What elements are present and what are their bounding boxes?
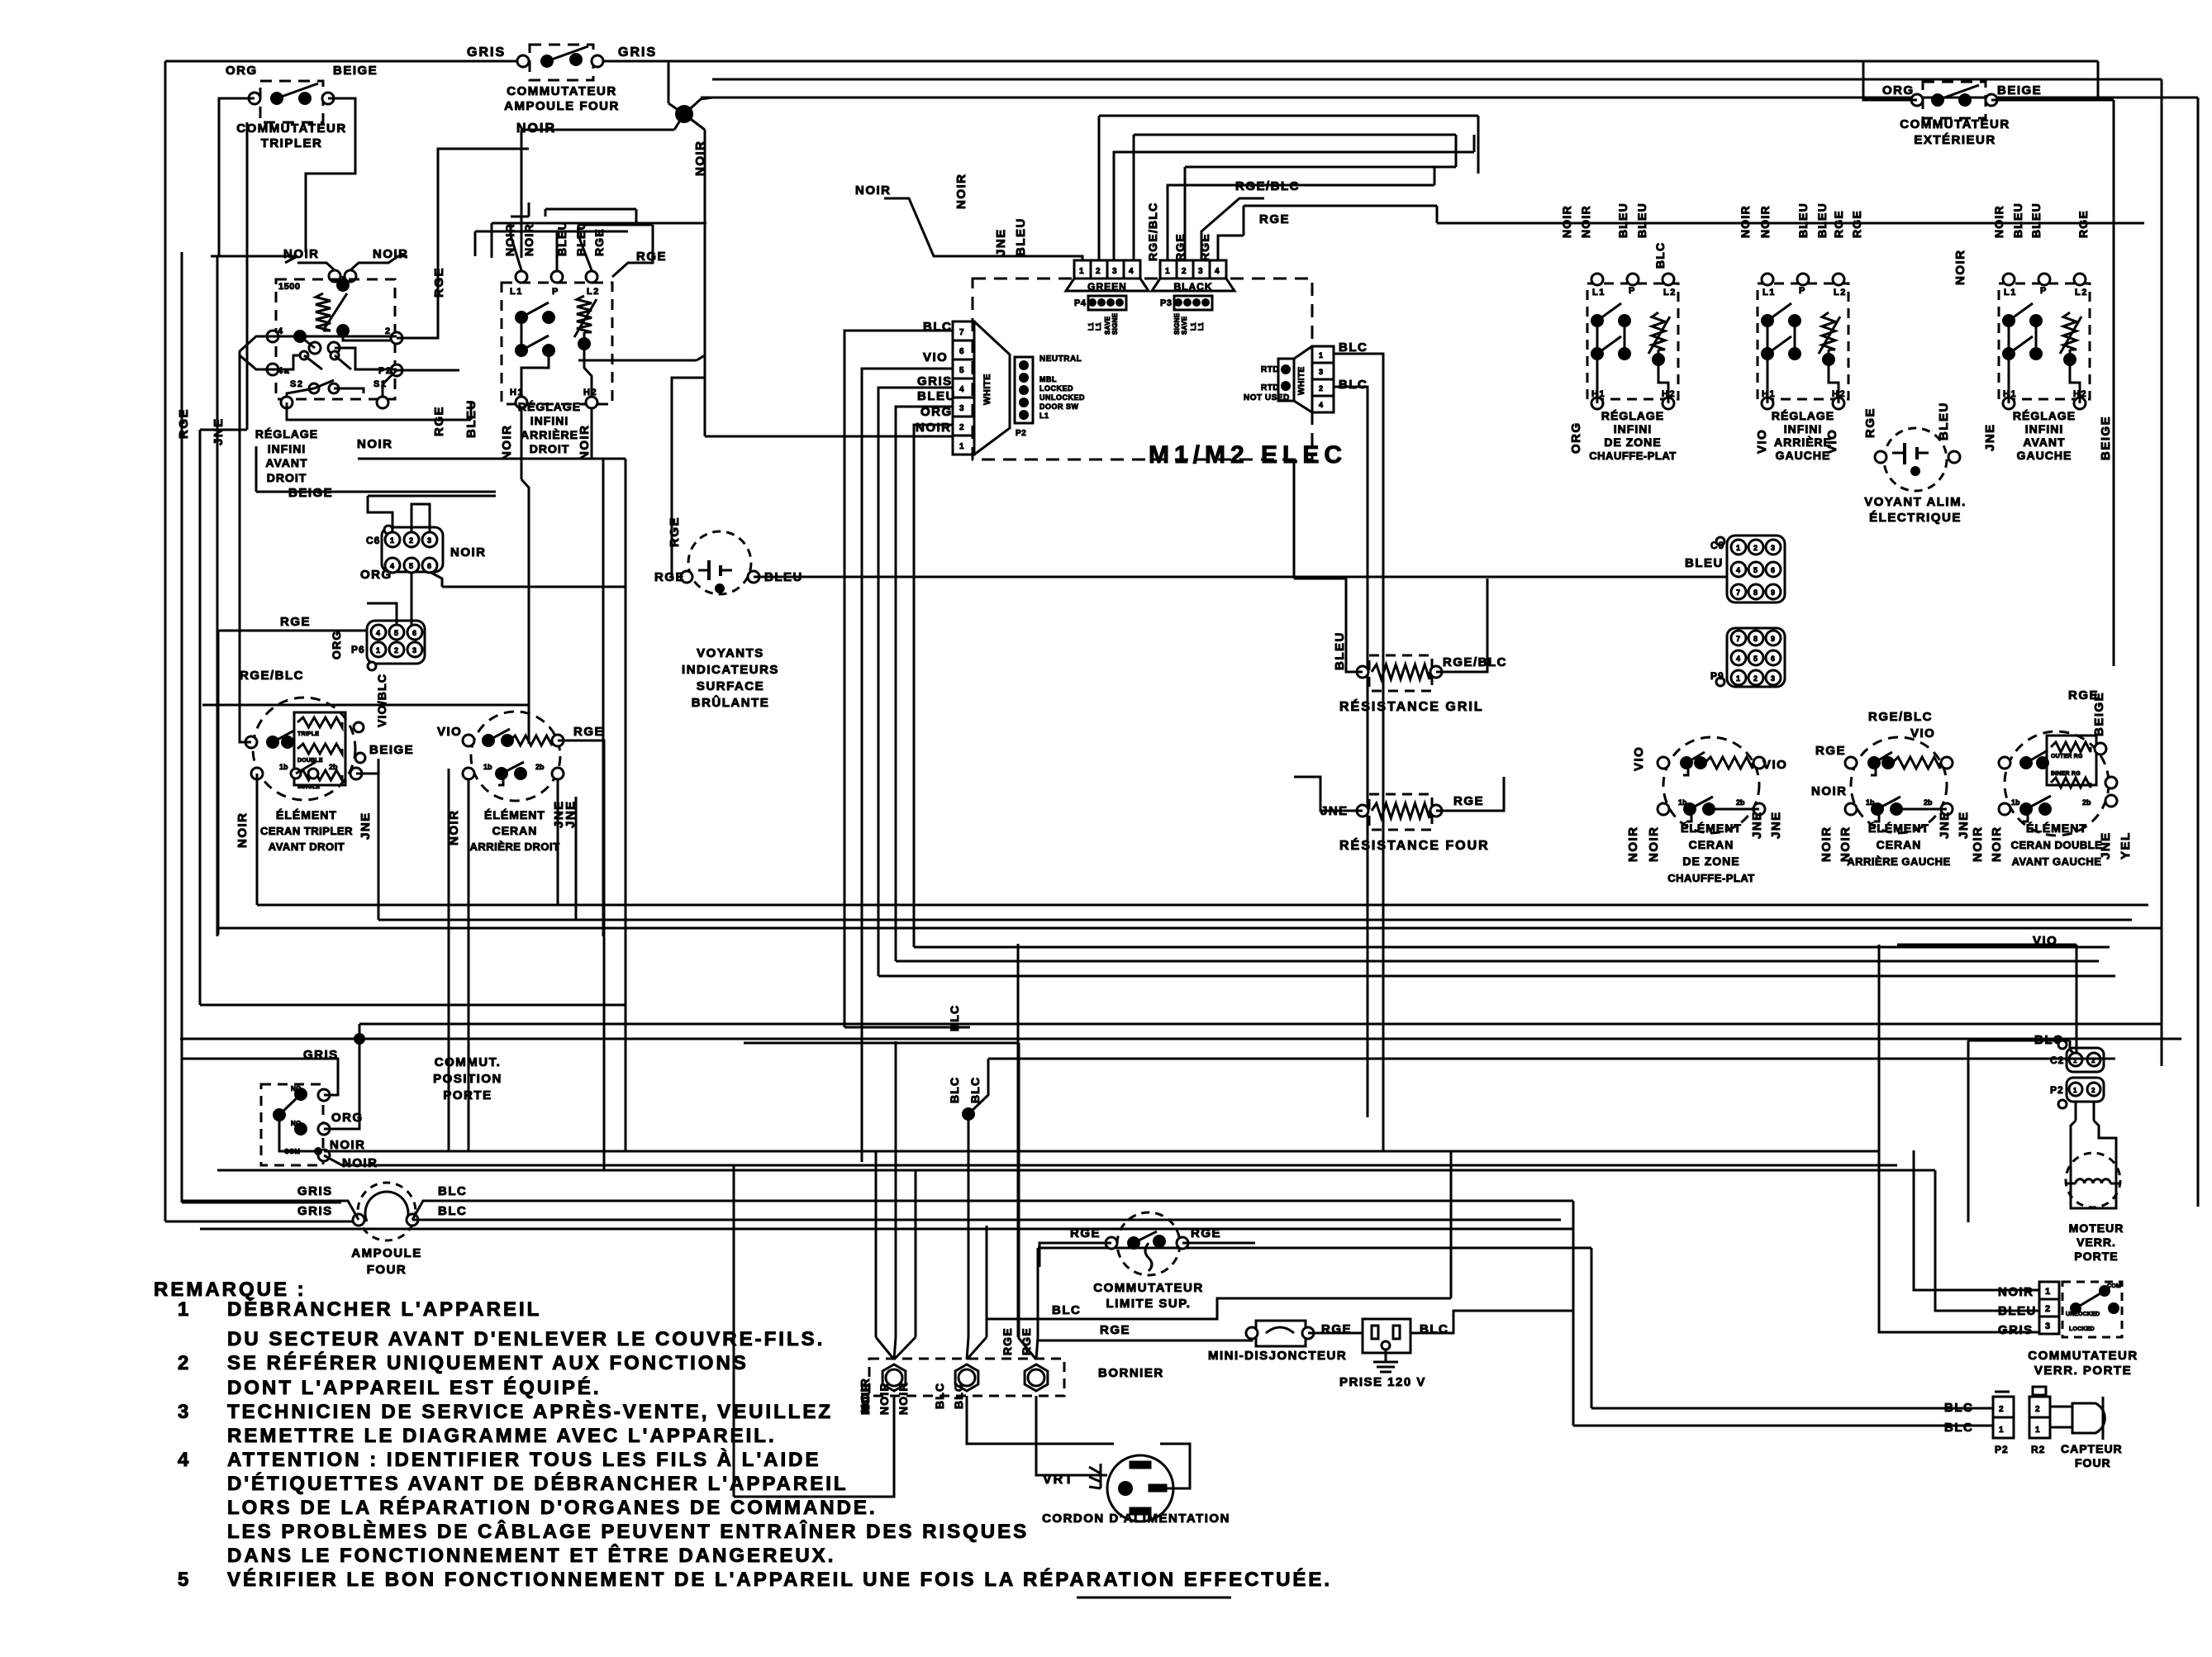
svg-text:VIO: VIO xyxy=(923,350,948,364)
svg-text:L2: L2 xyxy=(1663,288,1677,298)
svg-text:BLC: BLC xyxy=(948,1077,961,1103)
svg-text:BLEU: BLEU xyxy=(1333,631,1347,670)
svg-text:RGE: RGE xyxy=(1070,1226,1101,1240)
svg-text:2: 2 xyxy=(2045,1304,2050,1314)
svg-text:2b: 2b xyxy=(1924,798,1933,807)
svg-text:RGE: RGE xyxy=(1198,233,1211,261)
svg-text:GRIS: GRIS xyxy=(1998,1323,2034,1337)
svg-text:YEL: YEL xyxy=(2119,831,2133,859)
svg-text:RGE/BLC: RGE/BLC xyxy=(1868,710,1933,724)
svg-text:VIO: VIO xyxy=(1825,429,1839,454)
svg-text:NOIR: NOIR xyxy=(954,174,968,210)
svg-text:VERR.: VERR. xyxy=(2076,1236,2116,1249)
svg-text:ARRIÈRE: ARRIÈRE xyxy=(1774,436,1832,449)
svg-text:JNE: JNE xyxy=(994,228,1008,256)
svg-text:SAVE: SAVE xyxy=(1181,316,1188,335)
svg-text:3: 3 xyxy=(959,404,964,413)
svg-text:SIGNE: SIGNE xyxy=(1173,312,1181,335)
svg-text:1b: 1b xyxy=(483,763,492,771)
svg-text:9: 9 xyxy=(1771,635,1775,643)
svg-text:L1: L1 xyxy=(1190,322,1197,331)
svg-text:DONT L'APPAREIL EST ÉQUIPÉ.: DONT L'APPAREIL EST ÉQUIPÉ. xyxy=(227,1376,602,1399)
svg-text:LORS DE LA RÉPARATION D'ORGANE: LORS DE LA RÉPARATION D'ORGANES DE COMMA… xyxy=(227,1496,878,1519)
svg-text:NOIR: NOIR xyxy=(1820,826,1834,863)
svg-text:RGE: RGE xyxy=(1832,210,1845,238)
svg-text:2: 2 xyxy=(1753,674,1758,683)
svg-text:CHAUFFE-PLAT: CHAUFFE-PLAT xyxy=(1667,872,1754,884)
svg-text:INDICATEURS: INDICATEURS xyxy=(682,663,779,677)
svg-text:PRISE 120 V: PRISE 120 V xyxy=(1339,1375,1426,1389)
svg-text:L1: L1 xyxy=(1762,288,1776,298)
svg-text:NOIR: NOIR xyxy=(897,1382,910,1415)
svg-text:2: 2 xyxy=(1319,384,1323,393)
svg-text:L1: L1 xyxy=(510,287,523,297)
svg-text:2b: 2b xyxy=(329,763,338,771)
svg-text:L1: L1 xyxy=(1039,412,1049,420)
svg-text:BLEU: BLEU xyxy=(1815,202,1829,238)
svg-text:ORG: ORG xyxy=(330,631,343,660)
svg-text:AVANT: AVANT xyxy=(2023,436,2065,449)
svg-text:2: 2 xyxy=(1753,544,1758,552)
svg-text:RGE: RGE xyxy=(668,517,682,547)
svg-text:UNLOCKED: UNLOCKED xyxy=(2066,1312,2100,1317)
svg-text:7: 7 xyxy=(1736,635,1740,643)
svg-text:2: 2 xyxy=(178,1352,191,1374)
svg-text:5: 5 xyxy=(409,562,413,570)
svg-text:NOIR: NOIR xyxy=(693,140,707,177)
svg-text:1: 1 xyxy=(1736,674,1740,683)
svg-text:NOIR: NOIR xyxy=(342,1156,378,1170)
svg-text:L2: L2 xyxy=(2075,288,2088,298)
svg-text:BLEU: BLEU xyxy=(917,389,956,403)
svg-text:VIO: VIO xyxy=(437,725,462,739)
svg-text:RGE: RGE xyxy=(1020,1327,1033,1355)
svg-text:BEIGE: BEIGE xyxy=(2099,416,2113,460)
svg-text:NOIR: NOIR xyxy=(1992,205,2005,238)
svg-text:C9: C9 xyxy=(1710,540,1724,551)
svg-text:VIO: VIO xyxy=(1910,726,1935,740)
svg-text:L1: L1 xyxy=(1592,288,1605,298)
svg-text:P: P xyxy=(1799,286,1806,296)
svg-text:GAUCHE: GAUCHE xyxy=(2017,449,2072,462)
svg-text:REMETTRE LE DIAGRAMME AVEC L'A: REMETTRE LE DIAGRAMME AVEC L'APPAREIL. xyxy=(227,1425,777,1447)
svg-text:P2: P2 xyxy=(1995,1444,2009,1455)
svg-text:1b: 1b xyxy=(1678,798,1687,807)
svg-text:CERAN TRIPLER: CERAN TRIPLER xyxy=(260,825,353,837)
svg-text:DU SECTEUR AVANT D'ENLEVER LE: DU SECTEUR AVANT D'ENLEVER LE COUVRE-FIL… xyxy=(227,1328,825,1350)
svg-text:UNLOCKED: UNLOCKED xyxy=(1039,393,1085,402)
svg-text:NOIR: NOIR xyxy=(1626,826,1640,863)
svg-text:2: 2 xyxy=(1999,1405,2004,1414)
svg-text:4a: 4a xyxy=(278,366,290,376)
svg-text:RTD: RTD xyxy=(1261,383,1279,393)
svg-text:BLC: BLC xyxy=(1339,340,1368,355)
svg-text:MINI-DISJONCTEUR: MINI-DISJONCTEUR xyxy=(1208,1349,1347,1363)
svg-text:8: 8 xyxy=(1753,635,1758,643)
svg-text:1b: 1b xyxy=(1866,798,1875,807)
svg-text:CHAUFFE-PLAT: CHAUFFE-PLAT xyxy=(1589,450,1676,462)
svg-text:BLC: BLC xyxy=(1944,1421,1973,1435)
svg-text:H1: H1 xyxy=(510,388,524,398)
svg-text:VIO: VIO xyxy=(1762,758,1787,772)
svg-text:DROIT: DROIT xyxy=(267,471,307,484)
svg-text:1: 1 xyxy=(2035,1426,2040,1435)
svg-text:4: 4 xyxy=(178,1449,191,1471)
svg-text:RGE: RGE xyxy=(1453,794,1484,808)
svg-text:P9: P9 xyxy=(1710,670,1724,682)
svg-text:AVANT: AVANT xyxy=(265,456,307,469)
svg-text:NOIR: NOIR xyxy=(916,421,952,435)
svg-text:2: 2 xyxy=(2035,1405,2040,1414)
svg-text:H2: H2 xyxy=(1662,389,1676,399)
svg-text:CAPTEUR: CAPTEUR xyxy=(2061,1442,2123,1455)
svg-text:NOIR: NOIR xyxy=(1739,205,1752,238)
svg-text:GRIS: GRIS xyxy=(917,374,953,388)
svg-text:WHITE: WHITE xyxy=(1297,366,1306,395)
svg-text:NOIR: NOIR xyxy=(855,183,892,198)
svg-text:NOIR: NOIR xyxy=(330,1138,366,1152)
svg-text:VOYANT ALIM.: VOYANT ALIM. xyxy=(1864,495,1967,509)
svg-text:3: 3 xyxy=(1198,267,1203,276)
svg-text:RGE: RGE xyxy=(654,570,685,584)
svg-text:BLC: BLC xyxy=(933,1383,946,1409)
svg-text:4: 4 xyxy=(959,385,964,394)
svg-text:NOIR: NOIR xyxy=(516,121,556,136)
svg-text:DE ZONE: DE ZONE xyxy=(1604,436,1661,449)
svg-text:9: 9 xyxy=(1771,588,1775,597)
svg-text:1500: 1500 xyxy=(278,282,300,292)
svg-text:ORG: ORG xyxy=(226,64,258,78)
svg-text:RGE: RGE xyxy=(1259,212,1290,226)
svg-text:C2: C2 xyxy=(2050,1055,2064,1066)
svg-text:ÉLÉMENT: ÉLÉMENT xyxy=(2026,821,2087,835)
svg-text:NOIR: NOIR xyxy=(357,437,393,451)
svg-text:BLC: BLC xyxy=(438,1184,467,1198)
svg-text:RGE: RGE xyxy=(1191,1226,1221,1240)
svg-text:D'ÉTIQUETTES AVANT DE DÉBRANCH: D'ÉTIQUETTES AVANT DE DÉBRANCHER L'APPAR… xyxy=(227,1472,849,1495)
svg-text:JNE: JNE xyxy=(1957,811,1971,839)
svg-text:BLEU: BLEU xyxy=(1616,202,1629,238)
svg-text:WHITE: WHITE xyxy=(982,374,992,405)
svg-text:NOIR: NOIR xyxy=(1839,826,1853,863)
svg-text:1: 1 xyxy=(959,442,964,451)
svg-text:ÉLECTRIQUE: ÉLECTRIQUE xyxy=(1869,511,1962,525)
svg-text:BEIGE: BEIGE xyxy=(333,64,378,78)
svg-text:P3: P3 xyxy=(1160,298,1172,308)
svg-text:COMMUTATEUR: COMMUTATEUR xyxy=(1093,1281,1203,1295)
svg-text:ÉLÉMENT: ÉLÉMENT xyxy=(1868,821,1929,835)
svg-text:1: 1 xyxy=(178,1298,191,1321)
svg-text:INFINI: INFINI xyxy=(2025,422,2063,436)
svg-text:CERAN: CERAN xyxy=(1877,838,1922,851)
svg-text:NOIR: NOIR xyxy=(1647,826,1661,863)
svg-text:3: 3 xyxy=(1112,267,1117,276)
svg-text:4: 4 xyxy=(1736,655,1740,663)
svg-text:BLEU: BLEU xyxy=(2011,202,2024,238)
svg-text:COMMUTATEUR: COMMUTATEUR xyxy=(1900,117,2010,131)
svg-text:SE RÉFÉRER UNIQUEMENT AUX FONC: SE RÉFÉRER UNIQUEMENT AUX FONCTIONS xyxy=(227,1351,749,1374)
svg-text:NOIR: NOIR xyxy=(578,425,592,461)
svg-text:3: 3 xyxy=(427,536,431,545)
svg-text:4: 4 xyxy=(1129,267,1134,276)
svg-text:S2: S2 xyxy=(290,379,303,389)
svg-text:P4: P4 xyxy=(1074,298,1087,308)
svg-text:AMPOULE FOUR: AMPOULE FOUR xyxy=(504,99,620,113)
svg-text:L1: L1 xyxy=(1095,322,1102,331)
svg-text:RTD: RTD xyxy=(1261,365,1279,374)
svg-text:1: 1 xyxy=(1736,544,1740,552)
svg-text:JNE: JNE xyxy=(1983,423,1997,451)
svg-text:DROIT: DROIT xyxy=(530,442,570,455)
svg-text:M1/M2 ELEC: M1/M2 ELEC xyxy=(1149,441,1347,469)
svg-text:5: 5 xyxy=(959,366,964,375)
svg-text:1b: 1b xyxy=(279,763,288,771)
svg-text:ARRIÈRE DROIT: ARRIÈRE DROIT xyxy=(469,840,559,853)
svg-text:BLEU: BLEU xyxy=(2029,202,2043,238)
svg-text:NOIR: NOIR xyxy=(447,810,461,846)
svg-text:2: 2 xyxy=(394,646,398,655)
svg-text:RGE: RGE xyxy=(177,408,191,439)
svg-text:2: 2 xyxy=(2091,1087,2095,1094)
svg-text:COMMUTATEUR: COMMUTATEUR xyxy=(2028,1349,2138,1363)
svg-text:6: 6 xyxy=(959,347,964,356)
svg-text:5: 5 xyxy=(178,1569,191,1591)
svg-text:R2: R2 xyxy=(2031,1444,2045,1455)
svg-text:H1: H1 xyxy=(1762,389,1776,399)
svg-text:2b: 2b xyxy=(2082,798,2091,807)
svg-text:P: P xyxy=(2040,286,2048,296)
svg-text:RÉGLAGE: RÉGLAGE xyxy=(1772,409,1834,422)
svg-text:RGE: RGE xyxy=(573,725,604,739)
svg-text:L2: L2 xyxy=(587,287,600,297)
svg-text:VÉRIFIER LE BON FONCTIONNEMENT: VÉRIFIER LE BON FONCTIONNEMENT DE L'APPA… xyxy=(227,1568,1332,1591)
svg-text:NEUTRAL: NEUTRAL xyxy=(1039,355,1082,364)
svg-text:LOCKED: LOCKED xyxy=(1039,384,1073,393)
svg-text:1: 1 xyxy=(2045,1287,2050,1297)
svg-text:INFINI: INFINI xyxy=(268,442,306,455)
svg-text:NOIR: NOIR xyxy=(522,223,535,256)
svg-text:NOIR: NOIR xyxy=(500,425,514,461)
svg-text:INFINI: INFINI xyxy=(1784,422,1822,436)
svg-text:2: 2 xyxy=(409,536,413,545)
svg-text:BLC: BLC xyxy=(438,1204,467,1218)
svg-text:RGE/BLC: RGE/BLC xyxy=(240,669,304,683)
svg-text:JNE: JNE xyxy=(359,812,373,840)
svg-text:7: 7 xyxy=(1736,588,1740,597)
svg-text:COM: COM xyxy=(2107,1283,2121,1289)
svg-text:SAVE: SAVE xyxy=(1104,316,1111,335)
svg-text:1: 1 xyxy=(1079,267,1084,276)
svg-text:2b: 2b xyxy=(535,763,545,771)
svg-text:RGE: RGE xyxy=(1100,1323,1130,1337)
svg-text:REMARQUE :: REMARQUE : xyxy=(154,1278,307,1301)
svg-text:NOIR: NOIR xyxy=(1811,784,1848,798)
svg-text:3: 3 xyxy=(178,1401,191,1423)
svg-text:RÉSISTANCE FOUR: RÉSISTANCE FOUR xyxy=(1339,837,1490,853)
svg-text:NOIR: NOIR xyxy=(1971,826,1985,863)
svg-text:JNE: JNE xyxy=(564,800,578,828)
svg-text:TECHNICIEN DE SERVICE APRÈS-VE: TECHNICIEN DE SERVICE APRÈS-VENTE, VEUIL… xyxy=(227,1400,833,1423)
svg-text:1: 1 xyxy=(1999,1426,2004,1435)
svg-text:3: 3 xyxy=(1771,544,1775,552)
svg-text:JNE: JNE xyxy=(1750,811,1764,839)
svg-text:1: 1 xyxy=(1319,351,1323,359)
svg-text:VIO: VIO xyxy=(1632,746,1646,771)
svg-text:GRIS: GRIS xyxy=(297,1204,333,1218)
svg-text:RGE: RGE xyxy=(1815,744,1846,758)
svg-text:CERAN: CERAN xyxy=(492,824,538,837)
svg-text:BLC: BLC xyxy=(1339,378,1368,392)
svg-text:P2: P2 xyxy=(2050,1084,2064,1096)
svg-text:2b: 2b xyxy=(1736,798,1745,807)
svg-text:3: 3 xyxy=(412,646,416,655)
svg-text:4: 4 xyxy=(376,629,380,637)
svg-text:ORG: ORG xyxy=(1569,421,1583,454)
svg-text:RGE: RGE xyxy=(2076,210,2090,238)
svg-text:4: 4 xyxy=(278,326,284,336)
svg-text:NOIR: NOIR xyxy=(1560,205,1573,238)
svg-text:ÉLÉMENT: ÉLÉMENT xyxy=(276,808,337,821)
svg-text:RGE: RGE xyxy=(1850,210,1863,238)
svg-text:GAUCHE: GAUCHE xyxy=(1776,449,1831,462)
svg-text:SINGLE: SINGLE xyxy=(297,784,320,790)
svg-text:NOIR: NOIR xyxy=(1758,205,1772,238)
svg-text:BLEU: BLEU xyxy=(1937,402,1951,440)
svg-text:NO: NO xyxy=(291,1120,301,1127)
svg-text:BLC: BLC xyxy=(968,1077,982,1103)
svg-text:ARRIÈRE GAUCHE: ARRIÈRE GAUCHE xyxy=(1847,855,1950,868)
svg-text:RÉGLAGE: RÉGLAGE xyxy=(255,427,318,440)
svg-text:L2: L2 xyxy=(1834,288,1847,298)
svg-text:VERR. PORTE: VERR. PORTE xyxy=(2034,1364,2132,1378)
svg-text:MOTEUR: MOTEUR xyxy=(2069,1221,2124,1235)
svg-text:DE ZONE: DE ZONE xyxy=(1682,855,1739,868)
svg-text:RÉGLAGE: RÉGLAGE xyxy=(2013,409,2076,422)
svg-text:NOIR: NOIR xyxy=(1998,1285,2034,1299)
svg-text:ORG: ORG xyxy=(1882,83,1915,98)
svg-text:P: P xyxy=(1629,286,1636,296)
svg-text:PORTE: PORTE xyxy=(2074,1250,2118,1263)
svg-text:FOUR: FOUR xyxy=(2075,1456,2111,1469)
svg-text:LIMITE SUP.: LIMITE SUP. xyxy=(1106,1297,1192,1311)
svg-text:2: 2 xyxy=(959,423,964,432)
svg-text:NOIR: NOIR xyxy=(1953,250,1967,286)
svg-text:1: 1 xyxy=(390,536,394,545)
svg-text:JNE: JNE xyxy=(1938,811,1952,839)
svg-text:2: 2 xyxy=(1096,267,1101,276)
svg-text:P2: P2 xyxy=(1016,429,1026,438)
svg-text:VIO: VIO xyxy=(1755,429,1769,454)
svg-text:AVANT GAUCHE: AVANT GAUCHE xyxy=(2012,855,2102,868)
svg-text:DÉBRANCHER L'APPAREIL: DÉBRANCHER L'APPAREIL xyxy=(227,1298,541,1321)
svg-text:GREEN: GREEN xyxy=(1087,281,1127,293)
svg-text:JNE: JNE xyxy=(1769,811,1783,839)
svg-text:NOIR: NOIR xyxy=(859,1382,872,1415)
svg-text:BORNIER: BORNIER xyxy=(1098,1366,1164,1380)
svg-text:NOIR: NOIR xyxy=(450,545,487,559)
svg-text:BLEU: BLEU xyxy=(1796,202,1810,238)
svg-text:6: 6 xyxy=(412,629,416,637)
svg-text:1: 1 xyxy=(1165,267,1170,276)
svg-text:5: 5 xyxy=(1753,655,1758,663)
svg-text:GRIS: GRIS xyxy=(297,1184,333,1198)
svg-text:RGE/BLC: RGE/BLC xyxy=(1146,202,1159,261)
svg-text:RÉSISTANCE GRIL: RÉSISTANCE GRIL xyxy=(1339,698,1484,714)
svg-text:ATTENTION : IDENTIFIER TOUS LE: ATTENTION : IDENTIFIER TOUS LES FILS À L… xyxy=(227,1448,821,1471)
svg-text:MBL: MBL xyxy=(1039,375,1057,383)
svg-text:4: 4 xyxy=(1215,267,1220,276)
svg-text:RGE: RGE xyxy=(280,615,311,629)
svg-text:5: 5 xyxy=(1753,566,1758,574)
svg-text:4: 4 xyxy=(1736,566,1740,574)
svg-text:6: 6 xyxy=(427,562,431,570)
svg-text:RGE: RGE xyxy=(1863,407,1877,438)
svg-text:BEIGE: BEIGE xyxy=(1997,83,2042,98)
svg-text:5: 5 xyxy=(394,629,398,637)
svg-text:NOIR: NOIR xyxy=(1579,205,1592,238)
svg-text:ÉLÉMENT: ÉLÉMENT xyxy=(484,808,545,821)
svg-text:GRIS: GRIS xyxy=(618,45,657,60)
svg-text:BLC: BLC xyxy=(1653,242,1667,269)
svg-text:L1: L1 xyxy=(2004,288,2017,298)
svg-text:CERAN DOUBLE: CERAN DOUBLE xyxy=(2011,839,2103,851)
svg-text:BLEU: BLEU xyxy=(1014,217,1028,256)
svg-text:6: 6 xyxy=(1771,566,1775,574)
svg-text:LOCKED: LOCKED xyxy=(2069,1326,2095,1332)
svg-text:TRIPLE: TRIPLE xyxy=(297,731,319,737)
svg-text:VOYANTS: VOYANTS xyxy=(697,646,764,660)
svg-text:7: 7 xyxy=(959,328,964,337)
svg-text:CORDON D'ALIMENTATION: CORDON D'ALIMENTATION xyxy=(1042,1512,1230,1526)
svg-text:H1: H1 xyxy=(2003,389,2017,399)
svg-text:BLEU: BLEU xyxy=(1685,556,1724,570)
svg-text:TRIPLER: TRIPLER xyxy=(261,136,323,150)
svg-text:BRÛLANTE: BRÛLANTE xyxy=(692,695,770,710)
svg-text:AMPOULE: AMPOULE xyxy=(351,1246,422,1260)
svg-text:2: 2 xyxy=(385,326,392,336)
svg-text:ORG: ORG xyxy=(360,568,392,582)
svg-text:6: 6 xyxy=(1771,655,1775,663)
svg-text:BEIGE: BEIGE xyxy=(369,743,414,757)
svg-text:DANS LE FONCTIONNEMENT ET ÊTRE: DANS LE FONCTIONNEMENT ET ÊTRE DANGEREUX… xyxy=(227,1544,835,1567)
svg-text:RGE: RGE xyxy=(2068,688,2099,702)
svg-text:RÉGLAGE: RÉGLAGE xyxy=(1601,409,1664,422)
svg-text:P6: P6 xyxy=(351,644,365,655)
svg-text:1: 1 xyxy=(2073,1087,2077,1094)
svg-text:NOIR: NOIR xyxy=(235,812,250,849)
svg-text:C6: C6 xyxy=(366,535,380,546)
svg-text:INFINI: INFINI xyxy=(1614,422,1652,436)
svg-text:H1: H1 xyxy=(1591,389,1605,399)
svg-text:VIO/BLC: VIO/BLC xyxy=(375,674,388,727)
svg-text:INFINI: INFINI xyxy=(530,414,568,427)
svg-text:NOIR: NOIR xyxy=(878,1382,891,1415)
svg-text:3: 3 xyxy=(2045,1321,2050,1331)
svg-text:CERAN: CERAN xyxy=(1689,838,1734,851)
svg-text:SIGNE: SIGNE xyxy=(1111,312,1119,335)
svg-text:1b: 1b xyxy=(2011,798,2020,807)
svg-text:RGE: RGE xyxy=(1001,1327,1014,1355)
svg-text:OUTER RG: OUTER RG xyxy=(2051,754,2083,759)
svg-text:GRIS: GRIS xyxy=(467,45,506,60)
svg-text:COMMUTATEUR: COMMUTATEUR xyxy=(236,121,346,136)
svg-text:L1: L1 xyxy=(1087,322,1095,331)
svg-text:1: 1 xyxy=(376,646,380,655)
svg-text:BLEU: BLEU xyxy=(1635,202,1648,238)
svg-text:INNER RG: INNER RG xyxy=(2051,771,2081,777)
svg-text:3: 3 xyxy=(1319,368,1323,376)
svg-text:AVANT DROIT: AVANT DROIT xyxy=(269,840,345,853)
